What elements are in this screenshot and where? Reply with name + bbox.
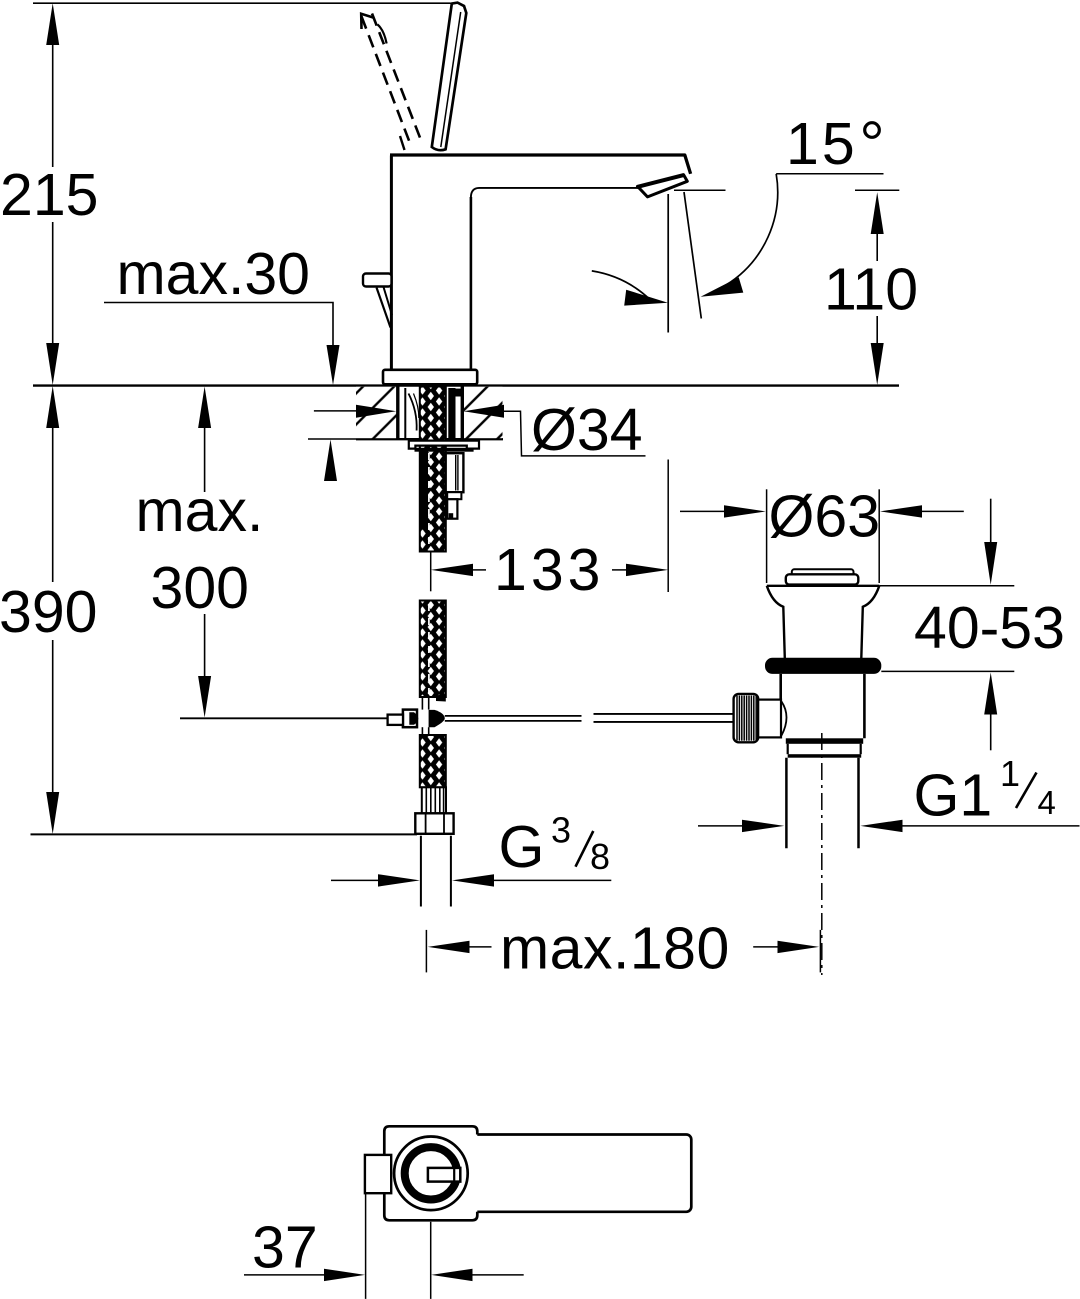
drain push button cap base <box>786 574 859 584</box>
dimension max.180 left tail <box>468 946 492 948</box>
drain centerline <box>821 733 823 975</box>
lever handle solid <box>432 3 467 151</box>
hose thread lines <box>426 787 443 813</box>
dimension max.300 top arrow <box>198 387 211 429</box>
dimension G3/8 left line <box>331 879 380 881</box>
flex hose braided segment A <box>420 387 446 552</box>
deck bottom line extension <box>308 438 356 440</box>
drain tailpipe left wall <box>785 758 788 849</box>
bottom reference line (390 datum) <box>31 833 418 835</box>
drain push button cap top <box>792 569 854 575</box>
rod guide inner lines <box>455 455 457 491</box>
hose threaded end <box>422 787 446 813</box>
spout underside <box>471 188 638 198</box>
pop-up rod strut <box>377 288 391 328</box>
pop-up rod strut second line <box>384 287 393 315</box>
pop-up rod end cap <box>388 715 403 725</box>
hose sheath strip below nut <box>420 452 428 530</box>
G3/8 pipe nipple <box>421 836 451 907</box>
dimension 37 left extension <box>365 1194 367 1299</box>
dimension 37 right extension <box>430 1222 432 1299</box>
top view cartridge slot <box>428 1168 460 1182</box>
dimension Ø63 right extension <box>878 489 880 583</box>
dimension 215 top arrow <box>46 3 59 45</box>
dimension 40-53 bottom shaft <box>990 713 992 751</box>
svg-text:G1: G1 <box>914 763 993 829</box>
water stream 15-degree line <box>684 192 701 319</box>
svg-text:max.180: max.180 <box>500 916 730 982</box>
horizontal pop-up rod left line <box>180 717 388 719</box>
pull rod thin tube lower <box>422 727 428 735</box>
drain valve knurled knob <box>734 694 759 742</box>
faucet base plate <box>383 370 477 385</box>
dimension max.180 right tail <box>753 946 781 948</box>
rod coupler block <box>403 710 417 728</box>
swing arc left arrowhead <box>624 290 668 306</box>
dimension 110 tick at spout height <box>855 189 899 191</box>
flex hose braided segment B <box>420 601 446 698</box>
mounting nut band <box>415 448 474 452</box>
faucet inner (right) column edge <box>470 197 473 370</box>
drain body left wall <box>779 674 782 738</box>
top view lever <box>365 1155 391 1193</box>
dimension 40-53 top shaft <box>990 499 992 544</box>
hose connection nut <box>415 813 453 834</box>
top view cartridge outer circle <box>394 1137 468 1211</box>
dimension max.180 left arrowhead <box>428 941 470 953</box>
dimension max.180 right extension (drain centerline) <box>819 930 821 973</box>
dimension 40-53 bottom extension <box>881 670 1014 672</box>
deck top surface line <box>33 384 899 386</box>
mounting hole right edge <box>461 387 464 439</box>
swing arc right segment <box>726 174 778 285</box>
svg-text:max.30: max.30 <box>117 241 310 307</box>
rod guide lower notch <box>449 513 454 518</box>
dimension Ø63 left extension <box>766 489 768 583</box>
top view spout arm <box>455 1135 691 1212</box>
dimension 110 bottom arrow <box>871 343 884 385</box>
drain body right wall <box>863 674 866 738</box>
rod guide lower tube <box>447 499 457 519</box>
drain tailpipe right wall <box>857 758 860 849</box>
svg-text:max.: max. <box>136 478 264 544</box>
dimension max.180 right arrowhead <box>778 941 820 953</box>
dimension 40-53 down arrowhead <box>984 542 997 585</box>
dimension Ø34 right arrowhead <box>464 405 504 418</box>
dimension G1 1/4 left arrowhead <box>742 820 784 832</box>
shank inner curve second <box>414 394 419 419</box>
dimension 37 left arrowhead <box>324 1269 365 1281</box>
dimension Ø34 left arrow line <box>314 410 358 412</box>
dimension 110 vertical line <box>876 232 878 345</box>
knob stem <box>758 700 781 738</box>
dimension G3/8 left arrowhead <box>378 874 420 886</box>
dimension G1 1/4 right line <box>901 825 1080 827</box>
dimension 110 top arrow <box>871 192 884 234</box>
knob knurl lines <box>737 696 756 741</box>
lever inner line <box>441 12 461 147</box>
svg-text:15: 15 <box>786 111 858 177</box>
svg-text:215: 215 <box>0 162 98 228</box>
block top right of hole <box>456 389 462 397</box>
dimension 133 left extension (hose centerline) <box>430 551 432 591</box>
mounting hole left edge <box>396 387 399 439</box>
drain O-ring seal <box>765 658 881 674</box>
lever handle open position (dashed) <box>361 14 421 151</box>
top view faucet body <box>384 1126 477 1220</box>
dimension Ø63 right arrowhead <box>880 505 922 517</box>
dimension Ø63 left line <box>680 510 726 512</box>
svg-text:Ø63: Ø63 <box>769 484 881 550</box>
dimension 133 right arrowhead <box>626 564 668 576</box>
svg-text:G: G <box>499 814 545 880</box>
shank inner curve <box>409 394 417 431</box>
dimension 215 vertical line <box>52 40 54 346</box>
15-degree reference line at spout tip <box>674 189 726 191</box>
drain bottom band lower <box>788 754 862 758</box>
dimension Ø63 left arrowhead <box>724 505 766 517</box>
dimension max.300 vertical line <box>204 426 206 678</box>
dimension G1 1/4 right arrowhead <box>860 820 902 832</box>
pop-up rod middle section <box>445 716 582 721</box>
svg-text:4: 4 <box>1038 784 1056 821</box>
dimension Ø34 left arrowhead <box>356 405 396 418</box>
slot divider line <box>453 1169 455 1181</box>
dimension Ø63 right line <box>920 510 964 512</box>
15 degrees underline <box>776 173 883 175</box>
dimension 133 left arrowhead <box>431 564 473 576</box>
svg-text:40-53: 40-53 <box>914 595 1065 661</box>
pull rod thin tube upper <box>422 697 428 710</box>
max.30 down arrow onto deck top <box>327 345 340 385</box>
hose braid end hook <box>436 695 446 702</box>
svg-text:300: 300 <box>151 555 249 621</box>
hose centerline white dashes <box>428 453 430 548</box>
faucet body left edge <box>390 156 393 370</box>
dimension 40-53 up arrowhead <box>984 673 997 715</box>
faucet top edge <box>390 155 691 174</box>
flex hose braided segment C <box>420 735 446 787</box>
svg-text:110: 110 <box>824 257 918 323</box>
dimension 37 left line <box>244 1274 326 1276</box>
swing arc right arrowhead <box>701 277 744 297</box>
dimension 390 top arrow <box>46 386 59 428</box>
dimension G3/8 right arrowhead <box>452 874 494 886</box>
hose segment B centerline dashes <box>428 604 430 694</box>
dimension G1 1/4 left tail <box>698 825 744 827</box>
valve seat curve inside body <box>782 702 787 736</box>
horseshoe washer <box>409 441 479 449</box>
svg-text:37: 37 <box>252 1215 318 1281</box>
drain flange right side <box>861 586 879 659</box>
shank inner wall <box>404 388 406 439</box>
drain flange top edge <box>767 585 880 587</box>
aerator seam line <box>637 176 685 188</box>
max.30 leader underline and drop <box>104 303 333 348</box>
rod coupler collet cone <box>429 710 445 727</box>
swing arc left segment <box>592 271 651 300</box>
pop-up rod knob on body <box>363 274 392 287</box>
deck hatched section right <box>462 387 503 438</box>
svg-text:3: 3 <box>551 810 571 851</box>
dimension max.300 bottom arrow <box>198 676 211 718</box>
svg-text:133: 133 <box>494 537 604 603</box>
dimension 390 vertical line <box>52 425 54 795</box>
drain flange left side <box>767 586 785 659</box>
pop-up rod right section <box>594 714 734 722</box>
dimension 390 bottom arrow <box>46 792 59 834</box>
dimension 133 left tail <box>471 569 486 571</box>
svg-text:390: 390 <box>0 579 97 645</box>
top reference line at lever tip <box>33 2 451 4</box>
dimension 37 right arrowhead <box>431 1269 472 1281</box>
deck bottom line <box>356 438 503 440</box>
rod guide step <box>447 492 461 499</box>
deck hatched section left <box>356 387 399 438</box>
max.30 up arrow onto deck bottom <box>324 440 337 482</box>
dimension 133 right extension <box>667 460 669 593</box>
dimension G3/8 right line <box>492 879 611 881</box>
aerator tip piece <box>638 175 688 197</box>
dimension max.180 left extension <box>425 930 427 973</box>
drain outlet ring left wall <box>787 744 789 754</box>
rod coupler half disc <box>409 712 418 725</box>
dimension 37 right line <box>471 1274 524 1276</box>
Ø34 leader line <box>502 411 646 456</box>
dimension 133 right tail <box>612 569 628 571</box>
rod guide block <box>446 453 464 492</box>
pull rod tube in hole <box>448 388 455 439</box>
water stream vertical line <box>667 194 669 333</box>
svg-text:1: 1 <box>1000 753 1020 794</box>
drain bottom band upper <box>786 738 863 744</box>
drain outlet ring right wall <box>860 744 862 754</box>
nut facet lines <box>426 813 444 834</box>
dimension 215 bottom arrow <box>46 343 59 385</box>
svg-text:Ø34: Ø34 <box>531 397 643 463</box>
dimension 40-53 top extension <box>879 585 1014 587</box>
top view cartridge thick ring <box>405 1147 457 1199</box>
svg-text:8: 8 <box>590 836 610 877</box>
